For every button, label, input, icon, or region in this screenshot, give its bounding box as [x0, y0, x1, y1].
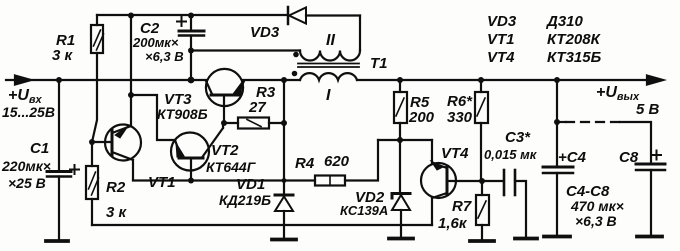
resistor R3	[224, 122, 284, 124]
svg-text:620: 620	[324, 153, 350, 170]
node top rail C2	[188, 13, 194, 19]
winding I polarity dot	[292, 71, 298, 77]
svg-text:×25 В: ×25 В	[8, 175, 46, 191]
svg-text:+С4: +С4	[558, 149, 587, 166]
wire VT1 emitter riser	[130, 16, 132, 127]
svg-text:R4: R4	[295, 155, 315, 172]
node C4 output	[554, 77, 560, 83]
ground R7	[470, 239, 494, 243]
node VT3 base R3	[221, 120, 227, 126]
svg-text:С3*: С3*	[505, 129, 531, 146]
svg-text:VT4: VT4	[487, 49, 515, 66]
capacitor C2	[190, 16, 192, 32]
svg-text:КТ644Г: КТ644Г	[206, 159, 257, 175]
resistor R1	[92, 15, 97, 142]
ground C4	[544, 235, 570, 239]
svg-text:3 к: 3 к	[52, 47, 74, 64]
winding II polarity dot	[293, 52, 299, 58]
wire node line y140	[378, 139, 432, 141]
node R3 right	[281, 120, 287, 126]
svg-text:КС139А: КС139А	[340, 203, 388, 218]
diode VD2 zener	[392, 194, 410, 199]
svg-text:330: 330	[447, 109, 473, 126]
svg-text:II: II	[326, 32, 335, 49]
node VD1 crossing	[282, 178, 287, 183]
svg-text:27: 27	[248, 99, 266, 116]
resistor R2	[91, 142, 93, 225]
wire node column	[283, 80, 285, 195]
output arrow	[647, 76, 663, 85]
wire C2 to winding II	[191, 49, 300, 51]
wire top rail left	[97, 14, 287, 16]
diode VD1	[275, 194, 293, 197]
wire VD3 to winding II	[359, 16, 361, 51]
wire output line	[357, 79, 649, 81]
ground C1	[46, 239, 68, 243]
svg-text:1,6к: 1,6к	[438, 215, 468, 232]
resistor R7	[481, 181, 483, 195]
svg-text:VT2: VT2	[211, 142, 239, 159]
svg-text:VT4: VT4	[441, 145, 469, 162]
node input C1	[56, 77, 62, 83]
node VT3 emitter	[281, 77, 287, 83]
C2 plus	[177, 17, 186, 26]
node input C2/VT3	[188, 77, 195, 84]
svg-text:I: I	[326, 87, 331, 104]
transformer T1 winding I	[300, 73, 357, 80]
node R5 VD2 VT4	[397, 137, 403, 143]
node R6 output	[478, 77, 484, 83]
svg-text:Т1: Т1	[370, 55, 388, 72]
ground C3	[515, 237, 537, 241]
wire base line y180	[133, 179, 315, 181]
transistor VT2	[171, 133, 209, 171]
svg-text:КТ908Б: КТ908Б	[157, 106, 208, 122]
node C4 dashed	[554, 119, 560, 125]
transformer T1 winding II	[300, 51, 360, 61]
svg-text:15...25В: 15...25В	[2, 104, 55, 120]
node VT1 riser jog	[128, 92, 134, 98]
resistor R4	[315, 176, 345, 186]
node VT4 base R7	[479, 178, 485, 184]
transistor VT1	[105, 125, 141, 161]
ground C8	[637, 235, 662, 239]
svg-text:VD3: VD3	[250, 24, 280, 41]
capacitor C3	[503, 170, 506, 195]
svg-text:Д310: Д310	[545, 13, 584, 30]
transistor VT4	[421, 163, 456, 198]
wire VT3 emitter to node	[243, 79, 300, 81]
svg-text:С8: С8	[619, 149, 639, 166]
transformer T1 core	[298, 64, 359, 68]
resistor R6	[480, 80, 482, 92]
node top rail VT1	[128, 13, 134, 19]
wire bottom rail	[92, 224, 432, 226]
svg-text:VT1: VT1	[148, 174, 176, 191]
node VT1 base	[89, 139, 95, 145]
node C2 winding II	[188, 48, 194, 54]
input arrow	[15, 76, 31, 85]
svg-text:R2: R2	[106, 179, 126, 196]
svg-text:VD3: VD3	[487, 13, 517, 30]
wire jog to VT2 emitter	[131, 95, 175, 140]
svg-text:VT1: VT1	[487, 31, 515, 48]
resistor R5	[399, 80, 401, 92]
svg-text:5 В: 5 В	[636, 101, 660, 118]
svg-text:200: 200	[408, 109, 435, 126]
svg-text:×6,3 В: ×6,3 В	[145, 49, 184, 64]
svg-text:0,015 мк: 0,015 мк	[484, 147, 538, 162]
svg-text:КТ208К: КТ208К	[547, 31, 602, 48]
svg-text:+Uвых: +Uвых	[596, 84, 640, 103]
node R5 output	[397, 77, 403, 83]
capacitor C8	[636, 163, 665, 166]
svg-text:3 к: 3 к	[106, 204, 128, 221]
C8 plus	[652, 151, 661, 160]
ground VD1	[272, 238, 296, 242]
svg-text:VD1: VD1	[236, 176, 265, 193]
ground VD2	[389, 237, 413, 241]
svg-text:R6*: R6*	[447, 93, 473, 110]
svg-text:470 мк×: 470 мк×	[570, 198, 624, 214]
svg-text:С1: С1	[30, 140, 49, 157]
wire dashed C4 to C8	[557, 121, 566, 123]
node VT2 base	[188, 178, 194, 184]
svg-text:R7: R7	[452, 198, 472, 215]
svg-text:КТ315Б: КТ315Б	[547, 49, 602, 66]
capacitor C1	[58, 80, 60, 171]
svg-text:220мк×: 220мк×	[1, 158, 51, 174]
wire input line	[6, 79, 206, 81]
diode VD3	[287, 7, 290, 24]
capacitor C4	[556, 80, 558, 167]
svg-text:200мк×: 200мк×	[132, 35, 179, 50]
transistor VT3	[206, 69, 243, 106]
C1 plus	[70, 165, 79, 174]
svg-text:×6,3 В: ×6,3 В	[575, 213, 617, 229]
svg-text:КД219Б: КД219Б	[219, 192, 271, 208]
